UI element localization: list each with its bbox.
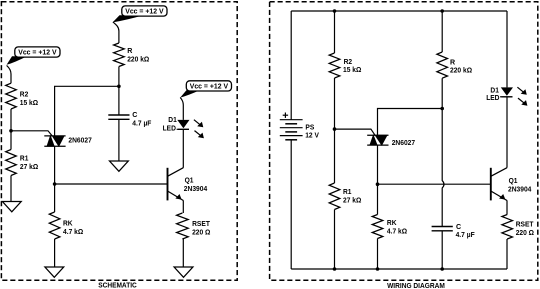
wiring panel dashed frame — [270, 2, 538, 280]
svg-text:15 kΩ: 15 kΩ — [20, 99, 39, 107]
transistor PUT 2N6027 (wiring) — [335, 129, 416, 147]
wire R1 to ground — [10, 176, 12, 202]
svg-text:12 V: 12 V — [305, 132, 319, 140]
node top R tap — [440, 9, 444, 13]
diode D1 LED (wiring) — [486, 87, 527, 106]
wire PUT cathode down — [54, 146, 56, 184]
node cathode/RK/base junction (wiring) — [376, 182, 380, 186]
wire Vcc to R — [113, 22, 119, 43]
wire battery negative lead — [290, 140, 292, 269]
wire D1 to Q1 collector (wiring) — [506, 97, 508, 168]
wire base: junction to Q1 base — [55, 183, 168, 185]
svg-text:4.7 µF: 4.7 µF — [456, 231, 476, 239]
svg-text:R2: R2 — [344, 58, 353, 66]
svg-text:Vcc = +12 V: Vcc = +12 V — [125, 9, 164, 16]
svg-text:Vcc = +12 V: Vcc = +12 V — [190, 83, 229, 90]
svg-text:2N6027: 2N6027 — [68, 137, 91, 145]
wire base to Q1 (wiring) — [378, 183, 491, 185]
wire R to C with hop over base wire — [442, 78, 444, 226]
wire Vcc to R2 — [7, 65, 11, 83]
wire RSET to ground — [182, 239, 184, 267]
svg-text:220 Ω: 220 Ω — [192, 229, 211, 237]
resistor R1 — [6, 131, 39, 176]
svg-text:2N3904: 2N3904 — [184, 185, 207, 193]
wire R2 to gate node — [334, 78, 336, 129]
wire D1 to Q1 collector — [182, 129, 184, 168]
svg-text:R: R — [127, 47, 132, 55]
svg-text:15 kΩ: 15 kΩ — [343, 66, 362, 74]
svg-text:RSET: RSET — [192, 220, 210, 228]
wire Q1 emitter to RSET (wiring) — [506, 200, 508, 214]
ground under C — [110, 161, 129, 171]
resistor RK (wiring) — [372, 184, 407, 238]
svg-text:2N6027: 2N6027 — [392, 139, 415, 147]
wire top rail — [291, 10, 507, 12]
wire RK to ground — [54, 239, 56, 267]
wire R2 to node — [10, 109, 12, 131]
svg-text:C: C — [132, 111, 137, 119]
resistor RSET — [177, 213, 211, 239]
wire PUT cathode down — [377, 145, 379, 184]
resistor R2 (wiring) — [329, 11, 361, 78]
resistor R2 — [6, 83, 39, 109]
resistor RSET (wiring) — [502, 215, 534, 240]
svg-text:R: R — [450, 59, 455, 67]
wire Vcc to D1 — [180, 98, 183, 120]
diode D1 LED — [163, 116, 204, 138]
node bottom R1 tap — [333, 267, 337, 271]
node gate junction — [333, 127, 337, 131]
wire top rail to D1 — [506, 11, 508, 87]
wire RK to bottom rail — [377, 239, 379, 270]
resistor R (wiring) — [437, 11, 472, 78]
svg-text:RSET: RSET — [516, 220, 534, 228]
resistor R1 (wiring) — [329, 129, 361, 209]
schematic panel dashed frame — [1, 2, 237, 280]
resistor RK — [49, 184, 83, 239]
capacitor C — [108, 111, 152, 127]
power label Vcc node 1 — [7, 56, 27, 65]
power label Vcc node 2 — [113, 15, 144, 22]
wire Q1 emitter to RSET — [182, 200, 184, 213]
wire battery positive lead — [290, 11, 292, 120]
svg-text:220 kΩ: 220 kΩ — [127, 55, 149, 63]
wire RSET to bottom rail — [506, 239, 508, 269]
node cathode/RK/base junction — [53, 182, 57, 186]
ground under RK — [45, 267, 64, 277]
ground under RSET — [174, 267, 193, 277]
wire bottom rail — [291, 268, 507, 270]
svg-text:27 kΩ: 27 kΩ — [20, 163, 39, 171]
node top R2 tap — [333, 9, 337, 13]
battery PS 12 V — [280, 113, 319, 140]
svg-text:PS: PS — [305, 123, 314, 131]
transistor Q1 2N3904 (wiring) — [491, 168, 532, 201]
svg-text:220 Ω: 220 Ω — [516, 229, 535, 237]
node R/C/anode junction — [117, 85, 121, 89]
node R bottom / PUT anode junction — [440, 107, 444, 111]
svg-text:4.7 kΩ: 4.7 kΩ — [63, 228, 83, 236]
svg-text:D1: D1 — [168, 116, 177, 124]
capacitor C (wiring) — [432, 223, 476, 239]
ground under R1 — [2, 202, 21, 212]
svg-text:LED: LED — [486, 94, 499, 102]
resistor R — [114, 43, 150, 67]
svg-text:R1: R1 — [20, 155, 29, 163]
svg-text:Q1: Q1 — [509, 177, 518, 185]
svg-text:Q1: Q1 — [185, 177, 194, 185]
svg-text:2N3904: 2N3904 — [508, 186, 531, 194]
svg-text:R2: R2 — [20, 91, 29, 99]
wire R to C — [118, 67, 120, 116]
node bottom RK tap — [376, 267, 380, 271]
transistor Q2 PUT 2N6027 — [11, 131, 92, 146]
svg-text:WIRING DIAGRAM: WIRING DIAGRAM — [387, 283, 445, 289]
svg-text:SCHEMATIC: SCHEMATIC — [98, 283, 137, 289]
wire C to ground — [118, 119, 120, 161]
wire R1 to bottom rail — [334, 210, 336, 270]
wire C to bottom rail — [441, 231, 443, 269]
node bottom C tap — [440, 267, 444, 271]
svg-text:220 kΩ: 220 kΩ — [450, 67, 472, 75]
node R2/R1/gate junction — [9, 129, 13, 133]
svg-text:4.7 µF: 4.7 µF — [132, 119, 152, 127]
svg-text:RK: RK — [63, 220, 73, 228]
svg-text:C: C — [456, 223, 461, 231]
svg-text:LED: LED — [163, 125, 176, 133]
power label Vcc node 3 — [180, 90, 200, 98]
wire anode: R/C node to PUT — [55, 86, 119, 136]
svg-text:4.7 kΩ: 4.7 kΩ — [387, 227, 407, 235]
wire PUT anode to R/C node — [378, 109, 443, 136]
transistor Q1 2N3904 — [168, 168, 208, 201]
svg-text:27 kΩ: 27 kΩ — [343, 196, 362, 204]
svg-text:RK: RK — [387, 219, 397, 227]
svg-text:R1: R1 — [343, 188, 352, 196]
svg-text:Vcc = +12 V: Vcc = +12 V — [18, 50, 57, 57]
